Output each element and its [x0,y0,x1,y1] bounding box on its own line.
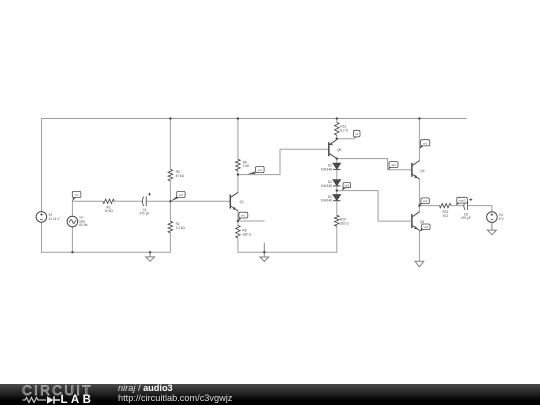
svg-text:vc1: vc1 [258,168,263,172]
wire vc1 node right [238,174,280,176]
ground (below Q5) [415,261,424,267]
footer meta text [118,383,173,393]
wire Q4 emitter to vout node [418,179,420,206]
node flag vout2 [456,197,468,205]
wire left vertical from top rail to V2 [41,119,43,212]
wire V1 bottom to rail [71,227,73,252]
wire bottom-mid ground rail [238,251,337,253]
svg-text:60 Hz: 60 Hz [79,223,88,227]
node flag vb1 [171,191,185,201]
svg-text:2.2 kΩ: 2.2 kΩ [176,226,186,230]
wire vb1 node to Q1 base [170,200,229,202]
svg-text:470 µF: 470 µF [140,212,150,216]
Q6 emitter arrow [329,143,333,146]
wire D3 to R10 [336,201,338,215]
wire to Q4 base [388,169,411,171]
junction node vb1 [169,200,171,202]
junction node ve2 (Q4 emitter / Q5 collector / R13) [418,204,420,206]
svg-text:ve1: ve1 [241,214,246,218]
source V1 sine [67,216,78,227]
wire vc1 node to Q1 collector [237,175,239,193]
wire bend up toward Q6 base [279,149,281,174]
label R3 47 kOhm [176,170,185,178]
wire C1 to vb1 node [146,200,170,202]
svg-text:47 kΩ: 47 kΩ [176,174,185,178]
label V2 12.14 V [48,213,60,221]
wire C6 to corner above V4 [468,205,492,207]
wire Q1 emitter to ve1 node [237,211,239,221]
wire to Q5 base [378,220,410,222]
resistor R6 [236,159,241,171]
svg-text:vc2: vc2 [423,141,428,145]
node flag vb3 [342,183,351,191]
wire R6 to vc1 node [237,171,239,175]
diode D1 [333,180,340,186]
svg-text:180 Ω: 180 Ω [242,232,251,236]
capacitor C1 [142,193,151,206]
svg-text:1N4148: 1N4148 [321,167,332,171]
transistor Q1 [230,192,238,211]
wire bend down to Q4 base level [387,159,389,170]
diode D2 [333,163,340,169]
ground (below V4) [487,222,496,234]
wire corner down to V4 [491,206,493,212]
resistor R13 [439,203,451,207]
label R12 8.2 Ohm [340,125,348,133]
label R8 180 Ohm [242,229,251,237]
voltage source V4 [487,212,498,223]
wire top supply rail [42,118,467,120]
junction top rail / R3 [169,117,171,119]
label D3 1N4148 [321,195,332,203]
wire Q6 collector node right [337,158,388,160]
wire D1 to vb3 node and D3 [336,186,338,194]
svg-text:ve: ve [355,132,358,136]
diode D3 [333,195,340,201]
wire ve1 stub [238,220,264,222]
node flag ve3 [420,224,430,232]
label R2 2.2 kOhm [176,222,186,230]
wire R13 to C6 [451,205,464,207]
svg-text:vin: vin [75,193,79,197]
node flag ve (Q6 emitter) [353,130,360,138]
svg-text:vb3: vb3 [345,184,350,188]
wire top rail to R12 [336,119,338,123]
resistor R10 [335,215,340,226]
node flag vin [72,191,81,201]
wire R12 to Q6 emitter node [336,135,338,139]
junction ground on mid rail [263,251,265,253]
wire Q5 emitter down to ground [418,231,420,262]
wire ve flag stub [337,138,355,140]
junction V1 on bottom rail [71,251,73,253]
junction top rail / Q4 collector [418,117,420,119]
node flag vc2 [419,140,429,149]
svg-text:1 kΩ: 1 kΩ [243,164,250,168]
transistor Q4 [412,161,420,180]
junction node vb2 (Q6 collector) [336,157,338,159]
voltage source V2 [36,212,47,223]
label C6 470 uF [461,213,471,221]
Q1 emitter arrow [233,207,237,210]
svg-text:8 Ω: 8 Ω [443,214,449,218]
resistor R2 [168,221,173,233]
label D1 1N4148 [321,180,332,188]
transistor Q5 [412,212,420,231]
svg-text:8.2 Ω: 8.2 Ω [340,128,348,132]
wire R3 to vb1 node [169,181,171,201]
wire vin node to R1 [72,200,102,202]
wire Q6 collector node to D2 [336,159,338,164]
label V4 8 V [499,213,505,221]
svg-text:12.14 V: 12.14 V [48,217,60,221]
wire R8 to mid rail [237,238,239,252]
node flag ve1 [238,212,248,221]
svg-text:Q4: Q4 [420,169,424,173]
wire vout node to R13 [419,205,439,207]
svg-text:1N4148: 1N4148 [321,184,332,188]
svg-text:1N4148: 1N4148 [321,199,332,203]
transistor Q6 [329,140,337,159]
wire V1 top to signal corner [71,201,73,216]
svg-text:10 kΩ: 10 kΩ [104,209,113,213]
svg-text:Q6: Q6 [337,148,341,152]
CircuitLab logo CIRCUIT [22,385,93,396]
label D2 1N4148 [321,164,332,172]
Q5 emitter arrow [414,226,418,229]
label R6 1 kOhm [243,161,250,169]
footer bar [0,384,540,405]
CircuitLab logo glyph + LAB [22,394,64,405]
resistor R3 [168,169,173,181]
wire vout node to Q5 collector [418,206,420,212]
junction node vb3 (between D1 and D3) [336,189,338,191]
wire top rail to R3 [169,119,171,170]
svg-text:vout2: vout2 [459,199,466,203]
node flag vb2 [388,162,398,170]
label C1 470 uF [140,208,150,216]
svg-text:Q1: Q1 [240,200,244,204]
svg-text:vb2: vb2 [391,163,396,167]
svg-text:ve3: ve3 [424,225,429,229]
junction ground on left rail [149,251,151,253]
junction node vc1 [237,173,239,175]
junction top rail / R6 [237,117,239,119]
wire V2 bottom to bottom-left rail [41,222,43,252]
node flag ve2 [420,198,430,206]
label V1 sine 60 Hz [79,216,88,227]
wire ve1 node to R8 [237,221,239,225]
wire top rail to R6 [237,119,239,160]
wire R1 to C1 [114,200,142,202]
resistor R8 [236,225,241,238]
label R1 10 kOhm [104,205,113,213]
junction node ve1 [237,220,239,222]
wire D2 to D1 [336,170,338,180]
junction Q6 emitter node [336,138,338,140]
wire vb3 node right [337,190,378,192]
svg-text:8 V: 8 V [499,217,505,221]
svg-text:470 µF: 470 µF [461,216,471,220]
wire R10 to mid rail [336,226,338,252]
wire vb1 node to R2 [169,201,171,221]
svg-text:Q5: Q5 [420,220,424,224]
Q4 emitter arrow [414,175,418,178]
svg-text:vb1: vb1 [179,193,184,197]
label R10 310 Ohm [340,218,349,226]
wire bottom-left ground rail [42,251,171,253]
capacitor C6 [464,198,472,210]
svg-text:310 Ω: 310 Ω [340,221,349,225]
svg-text:ve2: ve2 [423,199,428,203]
ground (mid rail) [260,243,269,262]
resistor R12 [335,122,340,135]
label R13 8 Ohm [442,210,448,218]
junction top rail / R12 [336,117,338,119]
ground (left rail) [146,252,155,261]
resistor R1 [103,199,115,203]
wire top rail to Q4 collector [418,119,420,161]
wire to Q6 base [280,148,328,150]
wire R2 to rail [169,233,171,252]
node flag vc1 [247,167,264,175]
wire bend down to Q5 base level [377,191,379,222]
